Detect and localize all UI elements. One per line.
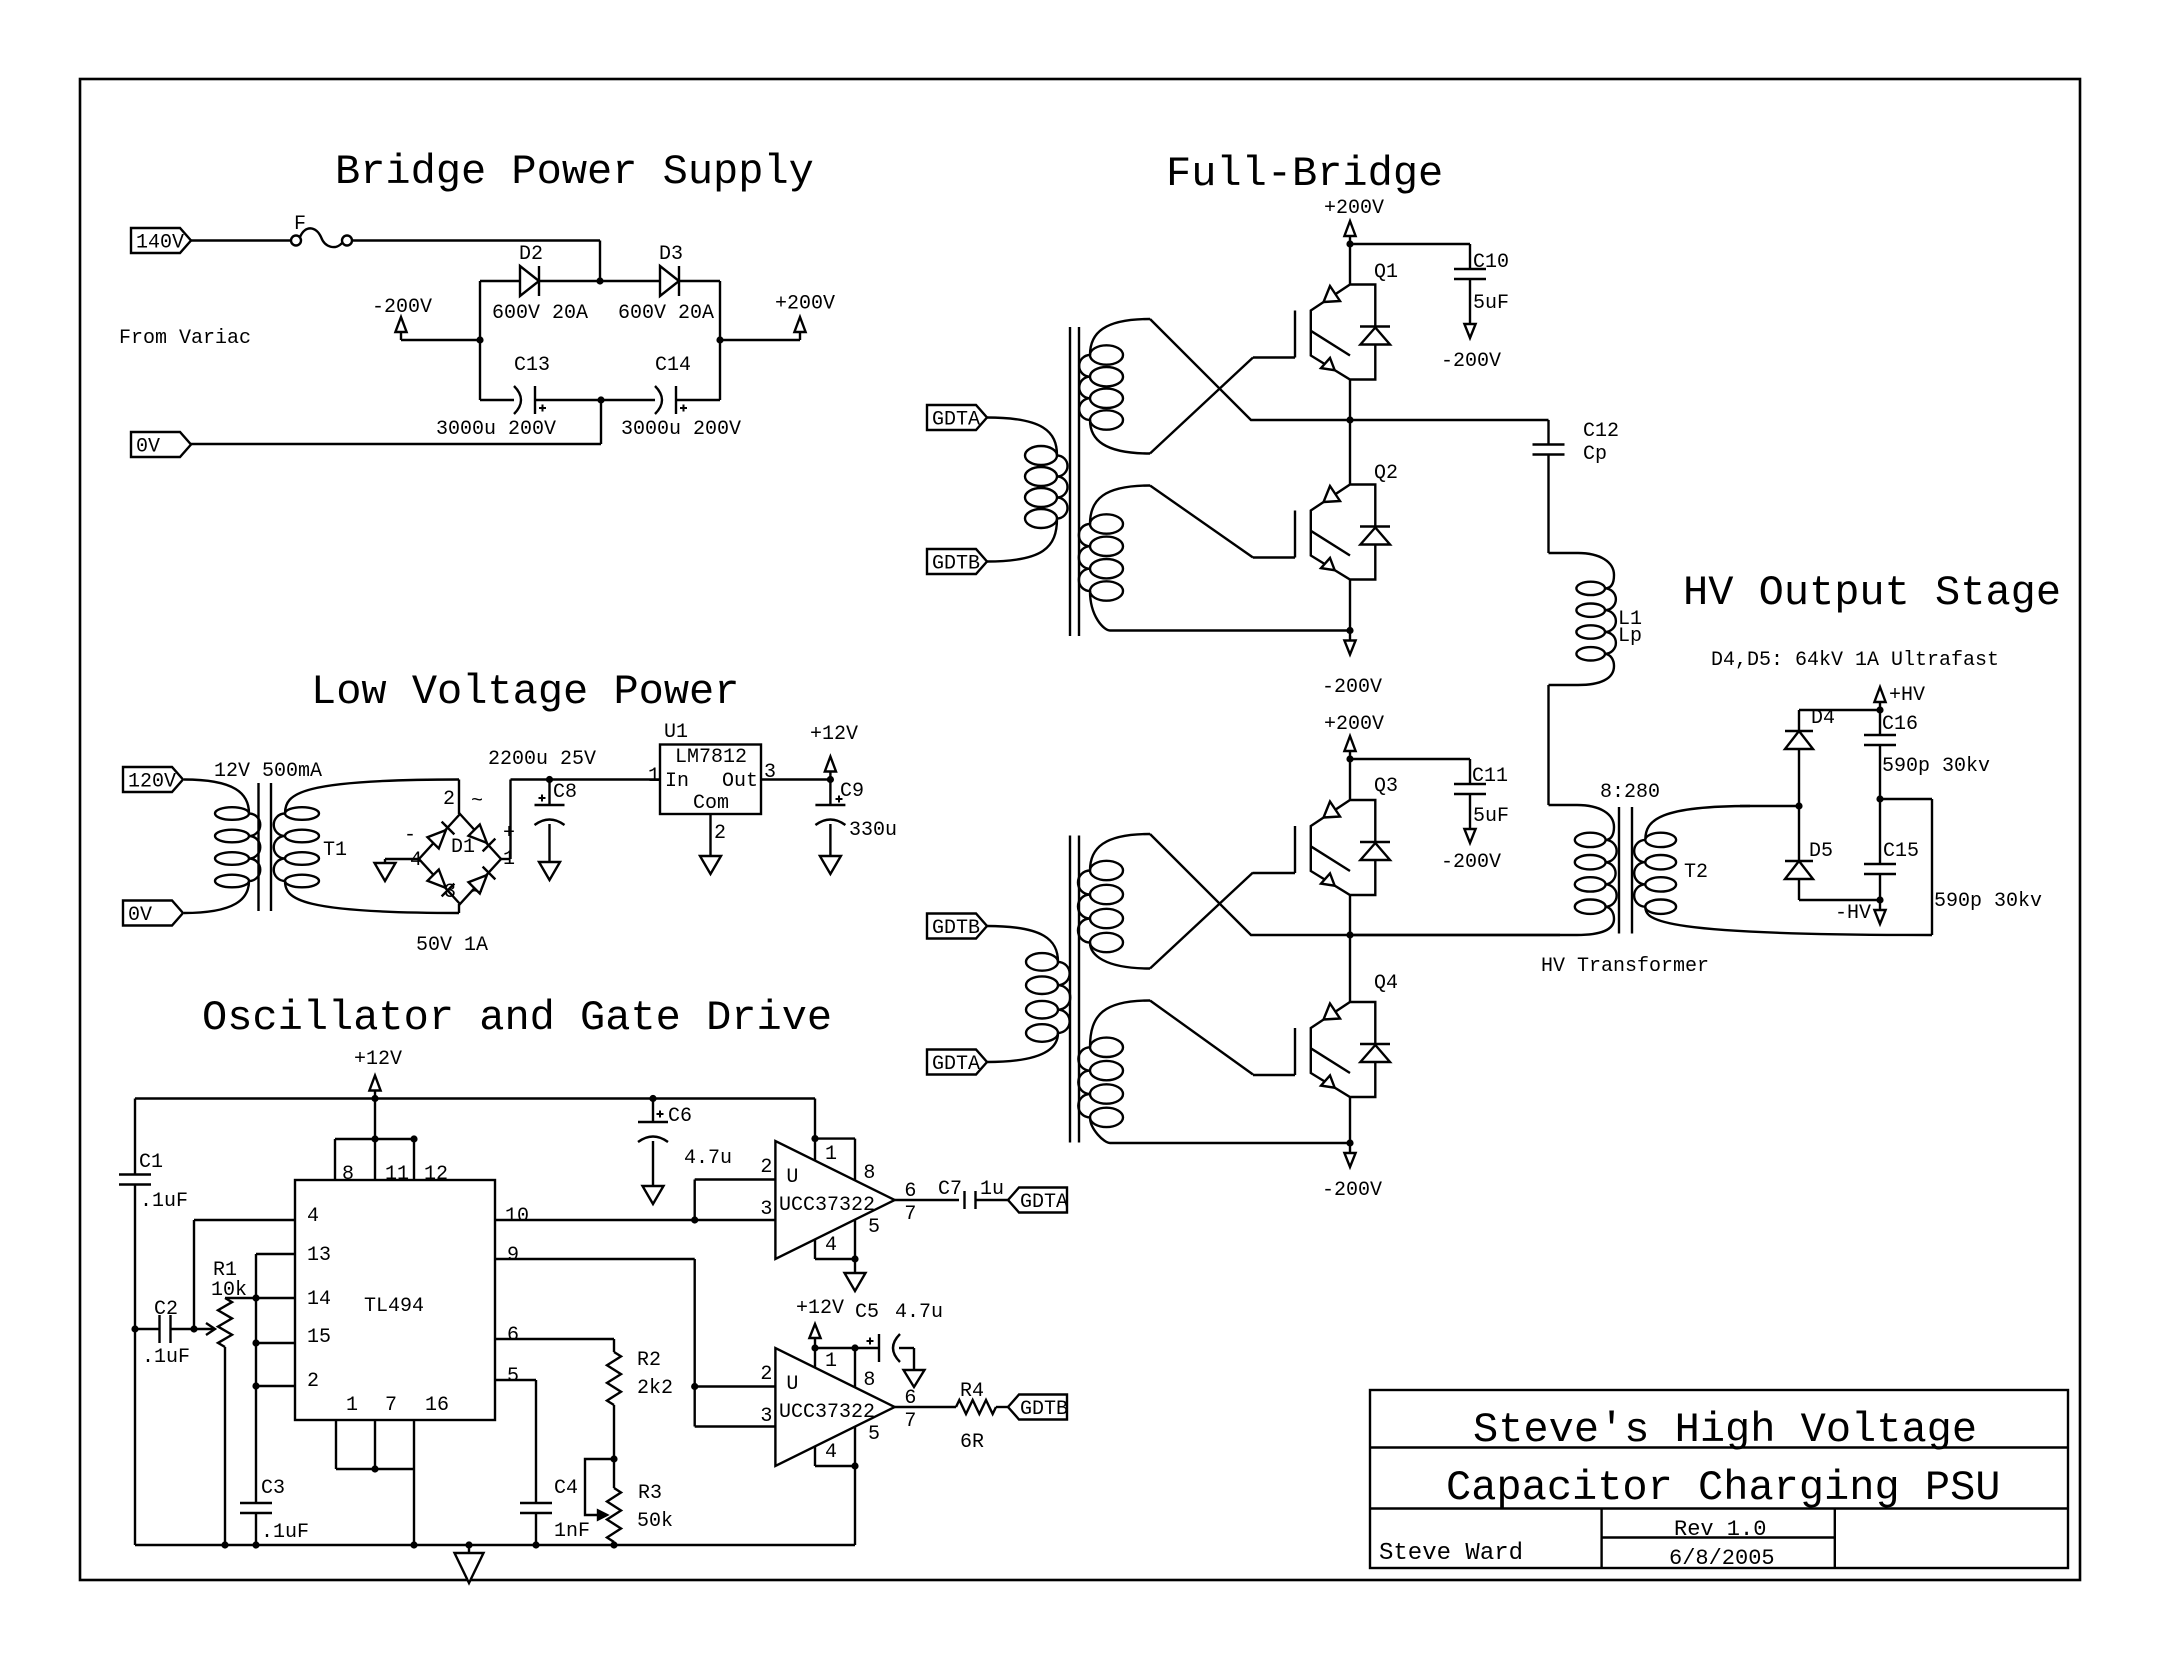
label main title line 2 xyxy=(1446,1464,2001,1512)
junction xyxy=(221,1541,228,1548)
power +200V rail Q1 xyxy=(1324,197,1384,244)
label D4 D5 spec xyxy=(1711,649,1999,672)
label HV Transformer xyxy=(1541,955,1709,978)
wire xyxy=(1110,1142,1350,1144)
rectifier D1 outline xyxy=(419,814,501,904)
node GDTB input flag xyxy=(927,549,987,576)
wire pin4 xyxy=(194,1220,295,1329)
wire xyxy=(495,1380,536,1503)
junction xyxy=(1346,755,1353,762)
label D1 minus xyxy=(404,824,416,847)
svg-text:C7: C7 xyxy=(938,1178,962,1201)
svg-text:12: 12 xyxy=(424,1163,448,1186)
svg-text:C14: C14 xyxy=(655,354,691,377)
wire xyxy=(652,1141,654,1186)
wire pin1/8 box xyxy=(815,1348,855,1387)
wire X to Q1 gate xyxy=(1150,358,1253,454)
svg-text:Q2: Q2 xyxy=(1374,462,1398,485)
wire xyxy=(1349,759,1351,800)
junction xyxy=(691,1216,698,1223)
svg-text:R3: R3 xyxy=(638,1482,662,1505)
junction xyxy=(410,1541,417,1548)
svg-text:12V 500mA: 12V 500mA xyxy=(214,760,322,783)
svg-text:.1uF: .1uF xyxy=(140,1190,188,1213)
svg-text:2: 2 xyxy=(714,822,726,845)
label D2 value xyxy=(492,302,588,325)
junction xyxy=(610,1541,617,1548)
junction xyxy=(851,1462,858,1469)
label TL494 pin 4 xyxy=(307,1205,319,1228)
capacitor C11 xyxy=(1454,765,1509,828)
label C16 value xyxy=(1882,755,1990,778)
wire xyxy=(501,780,660,860)
resistor R2 2k2 xyxy=(607,1349,673,1405)
label C8 value xyxy=(488,748,596,771)
svg-text:3: 3 xyxy=(760,1405,772,1428)
svg-text:3: 3 xyxy=(444,881,456,904)
transistor Q1 xyxy=(1253,261,1398,380)
svg-text:8: 8 xyxy=(342,1163,354,1186)
junction xyxy=(811,1344,818,1351)
label TL494 pin 9 xyxy=(507,1244,519,1267)
svg-text:-HV: -HV xyxy=(1835,902,1871,925)
svg-text:+12V: +12V xyxy=(796,1297,844,1320)
svg-text:Steve's High Voltage: Steve's High Voltage xyxy=(1473,1406,1977,1454)
label T1 sec rating xyxy=(416,934,488,957)
junction xyxy=(811,1135,818,1142)
capacitor C5 xyxy=(855,1301,900,1362)
label C4 value xyxy=(554,1520,590,1543)
label TL494 pin 7 xyxy=(385,1394,397,1417)
wire xyxy=(976,1199,1009,1201)
junction xyxy=(371,1135,378,1142)
wire bridge top xyxy=(480,280,720,282)
diode D5 xyxy=(1785,806,1833,900)
svg-text:-200V: -200V xyxy=(1441,851,1501,874)
svg-text:~: ~ xyxy=(471,790,483,813)
wire pin1/8 box xyxy=(815,1139,855,1181)
svg-text:2200u 25V: 2200u 25V xyxy=(488,748,596,771)
capacitor C13 xyxy=(514,354,550,414)
section title: Low Voltage Power xyxy=(311,668,739,716)
svg-text:UCC37322: UCC37322 xyxy=(779,1194,875,1217)
svg-text:-200V: -200V xyxy=(1322,676,1382,699)
svg-text:T1: T1 xyxy=(323,839,347,862)
svg-text:C12: C12 xyxy=(1583,420,1619,443)
svg-text:GDTA: GDTA xyxy=(932,409,980,432)
svg-text:0V: 0V xyxy=(136,436,160,459)
label TL494 pin 10 xyxy=(505,1205,529,1228)
wire pin4/5 box xyxy=(815,1427,855,1466)
svg-text:Bridge Power Supply: Bridge Power Supply xyxy=(335,148,814,196)
label TL494 pin 5 xyxy=(507,1365,519,1388)
wire xyxy=(761,778,830,780)
svg-text:GDTA: GDTA xyxy=(932,1053,980,1076)
label U1 pin 1 xyxy=(648,765,660,788)
node 0V input flag xyxy=(131,432,191,459)
svg-text:4.7u: 4.7u xyxy=(684,1147,732,1170)
diode D1d xyxy=(468,867,495,894)
svg-text:+200V: +200V xyxy=(1324,197,1384,220)
ground xyxy=(904,1370,925,1387)
node GDTA output flag xyxy=(1008,1188,1068,1215)
wire U1 com xyxy=(709,814,711,854)
wire xyxy=(385,858,419,860)
wire xyxy=(829,824,831,854)
wire xyxy=(458,780,460,815)
junction xyxy=(1346,240,1353,247)
diode D1a xyxy=(427,822,454,849)
svg-text:Oscillator and Gate Drive: Oscillator and Gate Drive xyxy=(202,994,832,1042)
label C1 value xyxy=(140,1190,188,1213)
resistor R4 6R xyxy=(956,1380,996,1454)
svg-text:330u: 330u xyxy=(849,819,897,842)
capacitor C8 xyxy=(535,780,578,826)
wire xyxy=(1349,935,1351,1002)
svg-text:R2: R2 xyxy=(637,1349,661,1372)
capacitor C16 xyxy=(1864,710,1918,799)
svg-text:Q3: Q3 xyxy=(1374,775,1398,798)
wire xyxy=(996,1406,1008,1408)
svg-text:Steve Ward: Steve Ward xyxy=(1379,1540,1523,1567)
ground xyxy=(539,858,560,880)
wire xyxy=(1110,629,1350,631)
svg-text:7: 7 xyxy=(385,1394,397,1417)
label C5 value xyxy=(895,1301,943,1324)
junction xyxy=(476,336,483,343)
label TL494 pin 15 xyxy=(307,1326,331,1349)
ground xyxy=(643,1186,664,1204)
power -200V xyxy=(372,296,432,340)
wire xyxy=(495,1339,614,1352)
wire xyxy=(895,1406,956,1408)
wire xyxy=(1349,380,1351,421)
wire xyxy=(613,1405,615,1459)
junction xyxy=(691,1383,698,1390)
svg-text:6R: 6R xyxy=(960,1431,984,1454)
svg-text:7: 7 xyxy=(904,1203,916,1226)
transformer GDT2 secondary B xyxy=(1078,1001,1150,1144)
power -HV xyxy=(1835,900,1886,925)
svg-text:Q1: Q1 xyxy=(1374,261,1398,284)
wire bottom rail xyxy=(135,1544,855,1546)
svg-text:6: 6 xyxy=(507,1324,519,1347)
wire X to Q2 gate xyxy=(1150,486,1253,558)
section title: Oscillator and Gate Drive xyxy=(202,994,832,1042)
wire xyxy=(895,1199,959,1201)
svg-text:2: 2 xyxy=(760,1363,772,1386)
junction xyxy=(532,1541,539,1548)
junction xyxy=(827,776,834,783)
svg-text:140V: 140V xyxy=(136,232,184,255)
node 120V input flag xyxy=(123,767,183,794)
junction xyxy=(597,396,604,403)
wire xyxy=(1349,244,1351,285)
title block frame xyxy=(1370,1390,2068,1568)
svg-text:+: + xyxy=(503,822,515,845)
fuse F xyxy=(291,213,352,247)
op-amp U1 LM7812 xyxy=(660,721,761,815)
wire pin9 to U3 xyxy=(495,1259,775,1427)
svg-text:C5: C5 xyxy=(855,1301,879,1324)
svg-text:13: 13 xyxy=(307,1244,331,1267)
svg-text:590p 30kv: 590p 30kv xyxy=(1934,890,2042,913)
junction xyxy=(190,1325,197,1332)
label U1 pin 2 xyxy=(714,822,726,845)
label author xyxy=(1379,1540,1523,1567)
svg-text:HV Transformer: HV Transformer xyxy=(1541,955,1709,978)
power -200V below C10 xyxy=(1441,324,1501,373)
power +12V at C9 xyxy=(810,723,858,780)
diode D1c xyxy=(427,869,454,896)
junction xyxy=(252,1382,259,1389)
junction xyxy=(851,1255,858,1262)
capacitor C12 xyxy=(1533,420,1620,466)
label D3 value xyxy=(618,302,714,325)
svg-text:6/8/2005: 6/8/2005 xyxy=(1669,1546,1775,1571)
svg-text:GDTB: GDTB xyxy=(1020,1398,1068,1421)
svg-text:+200V: +200V xyxy=(775,293,835,316)
diode D1b xyxy=(468,824,495,851)
diode D3 xyxy=(659,243,683,296)
label TL494 pin 14 xyxy=(307,1288,331,1311)
label date xyxy=(1669,1546,1775,1571)
power -200V below Q2 xyxy=(1322,631,1382,700)
label C2 value xyxy=(142,1346,190,1369)
svg-text:C13: C13 xyxy=(514,354,550,377)
transformer GDT1 secondary B xyxy=(1079,486,1150,631)
wire xyxy=(548,824,550,858)
svg-text:120V: 120V xyxy=(128,771,176,794)
ground xyxy=(820,854,841,874)
transformer GDT2 primary xyxy=(987,926,1070,1062)
svg-text:C11: C11 xyxy=(1472,765,1508,788)
svg-text:D1: D1 xyxy=(451,836,475,859)
svg-text:F: F xyxy=(294,213,306,236)
wire +HV node xyxy=(1799,709,1880,711)
svg-text:.1uF: .1uF xyxy=(261,1521,309,1544)
diode D2 xyxy=(519,243,543,296)
svg-text:2: 2 xyxy=(307,1370,319,1393)
wire xyxy=(401,339,480,341)
label D1 tilde bottom xyxy=(471,882,483,905)
wire xyxy=(135,1328,194,1330)
svg-text:U: U xyxy=(786,1166,798,1189)
svg-text:1u: 1u xyxy=(980,1178,1004,1201)
junction xyxy=(1346,931,1353,938)
wire xyxy=(374,1099,376,1181)
svg-text:~: ~ xyxy=(471,882,483,905)
transformer GDT2 secondary A xyxy=(1078,834,1150,969)
svg-text:14: 14 xyxy=(307,1288,331,1311)
wire xyxy=(1350,934,1560,936)
op-amp U3 UCC37322 xyxy=(760,1348,916,1466)
junction xyxy=(1876,795,1883,802)
wire pins 13/14/15/2 bus xyxy=(256,1254,295,1503)
wire +12V rail xyxy=(135,1097,815,1099)
svg-text:U: U xyxy=(786,1373,798,1396)
capacitor C2 xyxy=(154,1298,178,1343)
wire xyxy=(352,241,600,282)
wire xyxy=(1740,805,1799,807)
label D1 pin 3 xyxy=(444,881,456,904)
label main title line 1 xyxy=(1473,1406,1977,1454)
wire pin8/11/12 bus xyxy=(335,1139,414,1180)
svg-text:5: 5 xyxy=(868,1423,880,1446)
svg-text:C10: C10 xyxy=(1473,251,1509,274)
node GDTB input flag 2 xyxy=(927,914,987,941)
label C14 value xyxy=(621,418,741,441)
power +12V rail arrow xyxy=(354,1048,402,1099)
wire xyxy=(1349,580,1351,631)
wire mid to C12 xyxy=(1350,420,1549,445)
junction xyxy=(1876,896,1883,903)
svg-text:.1uF: .1uF xyxy=(142,1346,190,1369)
svg-text:15: 15 xyxy=(307,1326,331,1349)
node GDTB output flag xyxy=(1008,1395,1068,1422)
label U1 pin 3 xyxy=(764,761,776,784)
ground main xyxy=(455,1545,484,1583)
junction xyxy=(1346,627,1353,634)
resistor R3 50k xyxy=(585,1459,673,1545)
label C7 value xyxy=(980,1178,1004,1201)
svg-text:8: 8 xyxy=(863,1162,875,1185)
power +200V xyxy=(775,293,835,341)
svg-text:Q4: Q4 xyxy=(1374,972,1398,995)
transformer T2 core xyxy=(1619,807,1632,934)
label TL494 pin 11 xyxy=(385,1163,409,1186)
transformer T1 secondary xyxy=(274,780,459,914)
wire xyxy=(1349,420,1351,485)
wire pin4/5 box xyxy=(815,1220,855,1259)
svg-text:7: 7 xyxy=(904,1410,916,1433)
junction xyxy=(546,776,553,783)
capacitor C9 xyxy=(815,780,864,826)
label T1 xyxy=(323,839,347,862)
svg-text:5: 5 xyxy=(507,1365,519,1388)
svg-text:3000u 200V: 3000u 200V xyxy=(436,418,556,441)
wire pins 1/7/16 bottom xyxy=(336,1420,414,1545)
transformer T1 primary xyxy=(184,780,260,914)
label From Variac xyxy=(119,327,251,350)
capacitor C4 xyxy=(520,1477,578,1513)
capacitor C6 xyxy=(638,1099,692,1143)
junction xyxy=(410,1135,417,1142)
svg-text:Lp: Lp xyxy=(1618,625,1642,648)
svg-text:TL494: TL494 xyxy=(364,1295,424,1318)
junction xyxy=(1795,802,1802,809)
junction xyxy=(1346,416,1353,423)
capacitor C1 xyxy=(119,1099,163,1185)
label TL494 pin 2 xyxy=(307,1370,319,1393)
ground xyxy=(375,859,396,881)
wire xyxy=(1880,799,1932,935)
diode D4 xyxy=(1785,707,1835,806)
op-amp U2 UCC37322 xyxy=(760,1141,916,1259)
label D1 tilde top xyxy=(471,790,483,813)
svg-text:C8: C8 xyxy=(553,781,577,804)
svg-text:1: 1 xyxy=(825,1143,837,1166)
wire xyxy=(1469,794,1471,829)
svg-text:Low Voltage Power: Low Voltage Power xyxy=(311,668,739,716)
junction xyxy=(596,277,603,284)
node 140V input flag xyxy=(131,228,191,255)
wire xyxy=(1350,759,1470,784)
svg-text:50V 1A: 50V 1A xyxy=(416,934,488,957)
svg-text:4: 4 xyxy=(307,1205,319,1228)
svg-text:10k: 10k xyxy=(211,1279,247,1302)
junction xyxy=(131,1325,138,1332)
node 0V input flag 2 xyxy=(123,901,183,928)
power -200V below Q4 xyxy=(1322,1143,1382,1202)
transformer T1 core xyxy=(259,783,272,911)
power +HV xyxy=(1874,684,1925,710)
svg-text:-: - xyxy=(404,824,416,847)
junction xyxy=(610,1455,617,1462)
transformer GDT1 primary xyxy=(987,418,1068,562)
svg-text:+HV: +HV xyxy=(1889,684,1925,707)
transformer T2 secondary xyxy=(1634,806,1932,935)
label C13 value xyxy=(436,418,556,441)
wire xyxy=(814,1099,816,1161)
junction xyxy=(371,1465,378,1472)
svg-text:C9: C9 xyxy=(840,780,864,803)
svg-text:3000u 200V: 3000u 200V xyxy=(621,418,741,441)
svg-text:1: 1 xyxy=(825,1350,837,1373)
label C6 value xyxy=(684,1147,732,1170)
label C15 value xyxy=(1934,890,2042,913)
label TL494 pin 1 xyxy=(346,1394,358,1417)
wire pin10 to U2 xyxy=(495,1180,775,1221)
wire bridge left xyxy=(479,281,481,400)
inductor L1 xyxy=(1549,553,1643,685)
capacitor C15 xyxy=(1864,799,1919,900)
label revision xyxy=(1674,1517,1766,1542)
svg-text:5uF: 5uF xyxy=(1473,292,1509,315)
label D1 pin 2 xyxy=(443,788,455,811)
svg-text:1nF: 1nF xyxy=(554,1520,590,1543)
svg-text:Com: Com xyxy=(693,792,729,815)
svg-text:Out: Out xyxy=(722,770,758,793)
svg-text:600V 20A: 600V 20A xyxy=(618,302,714,325)
svg-text:U1: U1 xyxy=(664,721,688,744)
svg-text:T2: T2 xyxy=(1684,861,1708,884)
wire bridge right xyxy=(719,281,721,400)
svg-text:UCC37322: UCC37322 xyxy=(779,1401,875,1424)
svg-text:2k2: 2k2 xyxy=(637,1377,673,1400)
label TL494 pin 6 xyxy=(507,1324,519,1347)
wire xyxy=(720,339,800,341)
wire xyxy=(1547,685,1549,805)
label D1 xyxy=(451,836,475,859)
svg-text:Capacitor Charging PSU: Capacitor Charging PSU xyxy=(1446,1464,2001,1512)
section title: Full-Bridge xyxy=(1166,150,1443,198)
wire xyxy=(899,1348,914,1370)
op-amp TL494 xyxy=(295,1180,495,1420)
svg-text:Full-Bridge: Full-Bridge xyxy=(1166,150,1443,198)
svg-text:+200V: +200V xyxy=(1324,713,1384,736)
wire X to Q3 emitter node xyxy=(1150,834,1350,935)
svg-text:D2: D2 xyxy=(519,243,543,266)
svg-text:C6: C6 xyxy=(668,1105,692,1128)
wire xyxy=(191,400,601,444)
svg-text:4: 4 xyxy=(825,1441,837,1464)
svg-text:LM7812: LM7812 xyxy=(675,746,747,769)
svg-text:16: 16 xyxy=(425,1394,449,1417)
svg-text:From Variac: From Variac xyxy=(119,327,251,350)
svg-text:C16: C16 xyxy=(1882,713,1918,736)
label D1 pin 1 xyxy=(503,848,515,871)
